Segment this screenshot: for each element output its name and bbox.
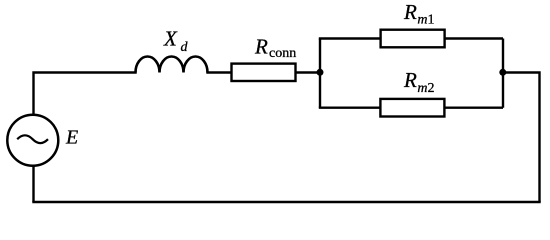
svg-text:X: X [163, 27, 178, 51]
wire left branch vertical [319, 39, 321, 108]
svg-text:m1: m1 [417, 13, 434, 28]
wire bottom return [32, 201, 540, 203]
ac source E [7, 115, 58, 166]
wire source bottom [32, 166, 34, 202]
resistor Rm1 [381, 30, 445, 48]
label Rconn [254, 35, 296, 61]
wire Rconn to left junction [296, 71, 321, 73]
wire top branch left [319, 37, 381, 39]
wire bottom branch right [444, 106, 503, 108]
node right junction [499, 69, 506, 76]
resistor Rm2 [380, 99, 444, 117]
resistor Rconn [232, 64, 296, 81]
svg-text:conn: conn [269, 46, 296, 61]
svg-text:R: R [254, 35, 268, 59]
label Xd [163, 27, 189, 55]
svg-text:E: E [65, 127, 78, 149]
wire right branch vertical [502, 39, 504, 108]
svg-text:d: d [181, 40, 189, 55]
wire top branch right [445, 37, 503, 39]
svg-text:m2: m2 [417, 81, 434, 96]
label Rm1 [403, 0, 435, 27]
wire bottom branch left [319, 106, 381, 108]
svg-text:R: R [403, 68, 417, 92]
inductor Xd [136, 57, 208, 73]
wire inductor to Rconn [206, 71, 231, 73]
label Rm2 [403, 68, 435, 96]
svg-text:R: R [403, 0, 417, 24]
wire right junction to right edge and down [503, 73, 540, 203]
node left junction [317, 69, 324, 76]
wire top-left: source top to inductor [34, 73, 137, 115]
